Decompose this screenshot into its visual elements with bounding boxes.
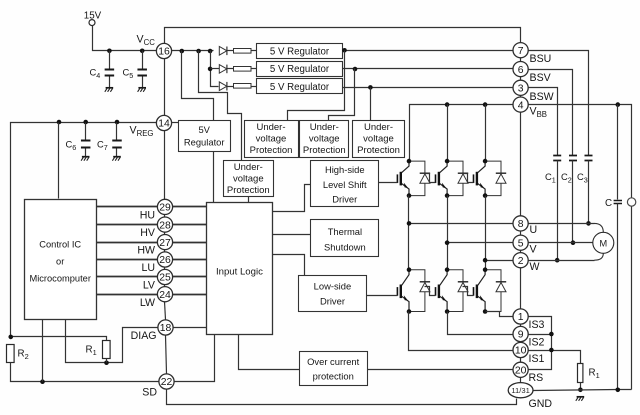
terminal 15V [89,20,95,26]
pin 7 BSU [513,43,528,58]
block Under-voltage Protection 2 [300,121,349,158]
capacitor C6 [81,141,91,148]
pin 22 SD [159,374,174,389]
junction [208,67,213,72]
wire IS3 net [486,312,513,317]
wire right border [520,77,522,81]
junction [140,49,145,54]
junction [445,309,450,314]
wire [227,50,234,52]
junction [616,102,621,107]
svg-text:22: 22 [161,377,173,388]
wire control box to SD [42,320,44,382]
wire HV net [97,224,158,226]
capacitor C3 [585,156,593,161]
svg-text:HV: HV [140,227,156,239]
ground [105,88,113,92]
wire [485,105,487,162]
motor M [593,232,614,253]
wire [173,259,207,261]
svg-text:IS1: IS1 [529,353,545,365]
wire VBB rail [410,105,513,162]
junction [445,193,450,198]
wire DIAG net [66,320,158,363]
wire [529,334,552,336]
svg-text:voltage: voltage [256,134,287,145]
junction [483,102,488,107]
wire W to motor [529,260,595,262]
junction [483,193,488,198]
svg-text:Input Logic: Input Logic [216,266,263,277]
wire input logic to low-side [273,255,305,276]
junction [445,240,450,245]
diode D6 [485,161,506,196]
resistor R4 [234,67,252,72]
wire left border 18-22 [166,336,167,374]
svg-text:27: 27 [159,238,171,249]
pin 25 LV [157,269,172,284]
svg-text:5: 5 [518,238,524,249]
wire [116,123,118,141]
wire U phase vertical [408,196,410,270]
junction [40,379,45,384]
wire low-side to Q4 gate [367,295,398,297]
wire R2 top to R1 top [11,337,107,341]
svg-text:DIAG: DIAG [131,330,157,342]
wire W phase vertical [485,196,487,270]
block 5 V Regulator 2 [257,62,343,77]
wire right border [520,96,522,97]
svg-text:protection: protection [313,371,354,382]
junction [483,267,488,272]
junction [586,221,591,226]
wire [252,68,257,70]
wire UV4 to input logic [248,197,250,203]
wire [85,123,87,141]
wire reg1 to UV1 [288,51,345,121]
svg-text:BSW: BSW [530,91,554,103]
ground [81,157,89,161]
diode D1 [219,47,227,56]
svg-text:14: 14 [158,119,170,130]
svg-text:voltage: voltage [309,134,340,145]
wire [588,161,590,224]
wire IS sense bus [529,317,552,370]
wire sense to R1 [529,351,581,364]
wire Q5 gate stub [425,287,436,296]
svg-text:Under-: Under- [364,122,393,133]
wire input logic to over current [239,335,300,370]
junction [549,348,554,353]
wire 15V to VCC [93,26,157,51]
wire [572,161,574,243]
junction [445,159,450,164]
junction [115,120,120,125]
wire right border [520,251,522,253]
pin 24 LW [157,287,172,302]
capacitor C5 [137,70,147,76]
svg-text:Under-: Under- [256,122,285,133]
junction [483,258,488,263]
diode D9 [485,270,506,312]
wire C4 leads [109,51,111,70]
wire HU net [97,206,158,208]
junction [483,159,488,164]
wire [227,86,234,88]
svg-text:9: 9 [518,330,524,341]
svg-text:Microcomputer: Microcomputer [29,274,90,284]
wire left border 24-18 [165,302,166,320]
block Control IC or Microcomputer [25,200,97,320]
svg-text:26: 26 [159,255,171,266]
wire W net [486,260,513,262]
wire [252,50,257,52]
wire [85,148,87,157]
wire left border 16-14 [164,59,166,116]
junction [57,120,62,125]
wire left border 14-29 [164,131,166,200]
svg-text:Protection: Protection [357,145,400,156]
wire reg3 to UV3 [370,88,372,121]
pin 11/31 GND [508,383,533,398]
pin 18 DIAG [158,320,173,335]
junction [342,48,347,53]
wire input logic to high-side [273,185,311,212]
svg-text:4: 4 [518,100,524,111]
wire RS to over current [368,369,513,371]
svg-text:LV: LV [143,280,156,292]
pin 27 HW [157,235,172,250]
block Thermal Shutdown [311,220,379,257]
wire Q6 gate stub [463,287,474,296]
wire LU net [97,259,158,261]
resistor R1 [103,341,111,359]
wire [557,161,559,261]
pin 1 IS3 [513,309,528,324]
wire [116,148,118,157]
resistor R2 [7,345,15,363]
wire left border [164,285,166,287]
svg-text:LW: LW [140,297,155,309]
resistor R5 [234,84,252,89]
junction [353,67,358,72]
svg-text:10: 10 [515,346,527,357]
wire U net [409,223,513,225]
svg-text:28: 28 [159,220,171,231]
pin 10 IS1 [513,342,528,357]
wire VBB external [529,105,632,198]
junction [549,332,554,337]
svg-text:BSU: BSU [530,53,552,65]
wire BSV to C2 [529,70,573,156]
wire BSW to C1 [529,88,558,156]
junction [407,309,412,314]
resistor R3 [234,49,252,54]
capacitor C [614,201,622,204]
wire LW net [97,294,158,296]
wire LV net [97,276,158,278]
wire right border [520,378,522,383]
svg-text:Protection: Protection [227,185,270,196]
diode D4 [409,161,430,196]
wire SD net [11,363,159,382]
transistor Q2 [436,161,448,196]
junction [107,49,112,54]
block Over current protection [300,352,368,386]
wire left border [164,250,166,252]
pin 29 HU [157,199,172,214]
junction [407,159,412,164]
svg-text:M: M [599,238,607,249]
svg-text:Thermal: Thermal [328,226,362,237]
wire [174,327,207,329]
svg-text:24: 24 [159,290,171,301]
junction [571,240,576,245]
svg-text:Under-: Under- [234,162,263,173]
transistor Q4 [397,270,409,312]
wire reg2 to UV2 [329,69,355,121]
svg-text:18: 18 [160,323,172,334]
junction [407,267,412,272]
svg-text:7: 7 [518,46,524,57]
svg-text:IS2: IS2 [529,337,545,349]
wire diode column [211,51,219,87]
wire Q3 gate stub [463,174,474,183]
svg-text:Over current: Over current [307,356,359,367]
pin 14 VREG [156,115,171,130]
wire V to motor [529,242,593,244]
wire left border [164,215,166,217]
block Under-voltage Protection 4 [224,161,274,197]
wire [172,122,179,124]
svg-text:Control IC: Control IC [39,240,81,250]
svg-text:HU: HU [140,210,155,222]
junction [483,309,488,314]
wire [631,207,633,390]
pin 2 W [513,253,528,268]
junction [445,267,450,272]
svg-text:High-side: High-side [325,164,365,175]
svg-text:6: 6 [518,65,524,76]
svg-text:29: 29 [159,203,171,214]
svg-text:16: 16 [158,47,170,58]
wire [106,359,108,363]
svg-text:Protection: Protection [250,145,293,156]
wire VREG rail [11,123,157,337]
pin 4 VBB [513,97,528,112]
svg-text:3: 3 [518,84,524,95]
svg-text:Driver: Driver [332,194,357,205]
svg-text:V: V [530,243,538,255]
block Under-voltage Protection 1 [245,121,299,158]
pin 5 V [513,235,528,250]
junction [8,335,13,340]
capacitor C4 [105,70,115,76]
pin 8 U [513,216,528,231]
junction [578,388,583,393]
svg-text:Driver: Driver [320,296,345,307]
svg-text:8: 8 [518,219,524,230]
wire [580,383,582,390]
svg-text:W: W [530,261,540,273]
wire IS2 net [448,312,513,335]
block High-side Level Shift Driver [311,161,379,207]
svg-text:5 V Regulator: 5 V Regulator [270,82,330,93]
svg-text:5 V Regulator: 5 V Regulator [270,46,330,57]
wire W motor arc [594,253,603,260]
wire GND net [533,390,632,391]
transistor Q1 [397,161,409,196]
junction [180,49,185,54]
svg-text:11/31: 11/31 [511,386,529,395]
wire C5 leads [142,51,144,70]
svg-text:or: or [56,257,64,267]
diode D7 [409,270,430,312]
junction [445,102,450,107]
pin 6 BSV [513,62,528,77]
svg-text:IS3: IS3 [529,319,545,331]
ground [112,157,120,161]
svg-text:C: C [605,198,612,209]
pin 3 BSW [513,80,528,95]
svg-text:GND: GND [529,398,553,410]
pin 28 HV [157,217,172,232]
wire DC link cap branch [617,105,619,200]
svg-text:Shutdown: Shutdown [324,241,366,252]
diode D2 [219,65,227,74]
capacitor C2 [569,156,577,161]
wire IS1 net [409,312,513,351]
wire SD to input logic [175,335,215,382]
svg-text:5 V Regulator: 5 V Regulator [270,64,330,75]
svg-text:RS: RS [529,372,544,384]
svg-text:5V: 5V [198,124,210,135]
wire V phase vertical [447,196,449,270]
wire [617,204,619,390]
svg-text:2: 2 [518,256,524,267]
wire [447,105,449,162]
block 5 V Regulator 3 [257,79,343,94]
junction [196,49,201,54]
block Low-side Driver [299,276,367,312]
junction [83,120,88,125]
wire right border [520,231,522,236]
wire high-side to Q1 gate [379,182,398,184]
diode D8 [447,270,468,312]
wire 5V reg to input logic [213,152,215,203]
wire VCC to 5V regulator [182,51,214,121]
pin 20 RS [513,362,528,377]
wire left border [164,233,166,235]
pin 9 IS2 [513,326,528,341]
svg-text:U: U [530,224,538,236]
wire right border [520,113,522,216]
wire module bottom border [167,390,517,405]
svg-text:BSV: BSV [530,72,552,84]
wire BSU net [343,50,513,52]
wire VREG to control box [58,123,60,199]
wire U motor arc [594,223,603,232]
wire right border [520,325,522,327]
wire [211,68,220,70]
junction [407,193,412,198]
wire module top border [165,28,521,44]
diode D3 [219,82,227,91]
svg-text:Level Shift: Level Shift [323,179,367,190]
wire input logic to thermal [273,234,311,236]
pin 26 LU [157,252,172,267]
wire [173,242,207,244]
junction [368,85,373,90]
junction [407,221,412,226]
transistor Q5 [436,270,448,312]
wire [173,276,207,278]
wire [142,76,144,88]
junction [555,258,560,263]
wire [173,224,207,226]
svg-text:Low-side: Low-side [314,281,352,292]
wire [173,206,207,208]
wire BSU to C3 [529,51,589,156]
transistor Q3 [474,161,486,196]
svg-text:HW: HW [137,245,155,257]
svg-text:20: 20 [515,366,527,377]
wire [109,76,111,88]
resistor R1 shunt [578,364,583,383]
junction [616,388,621,393]
ground [138,88,146,92]
wire BSV net [343,68,513,70]
wire VCC to UV4 [199,51,242,161]
wire left border [164,268,166,270]
pin 16 VCC [156,43,171,58]
block 5 V Regulator 1 [257,44,343,59]
diode D5 [447,161,468,196]
transistor Q6 [474,270,486,312]
block Input Logic [207,203,273,335]
wire U to motor [529,223,595,225]
svg-text:Regulator: Regulator [184,137,225,148]
svg-text:LU: LU [141,262,155,274]
svg-text:Protection: Protection [303,145,346,156]
wire VCC rail [172,50,214,52]
wire right border [520,58,522,62]
wire right border [520,268,522,309]
svg-text:voltage: voltage [233,174,264,185]
block Under-voltage Protection 3 [353,121,405,158]
wire V net [448,242,513,244]
wire HW net [97,242,158,244]
svg-text:Under-: Under- [310,122,339,133]
wire [173,294,207,296]
wire BSW net [343,87,513,89]
terminal VBB supply [627,198,635,206]
svg-text:25: 25 [159,273,171,284]
capacitor C1 [553,156,561,161]
ground [576,397,584,401]
block 5V Regulator [179,121,231,152]
wire right border [520,342,522,343]
wire [252,86,257,88]
svg-text:SD: SD [142,386,157,398]
wire right border [520,358,522,363]
svg-text:1: 1 [518,312,524,323]
capacitor C7 [112,141,122,148]
junction [208,49,213,54]
junction [104,360,109,365]
wire [227,68,234,70]
wire Q2 gate stub [425,174,436,183]
